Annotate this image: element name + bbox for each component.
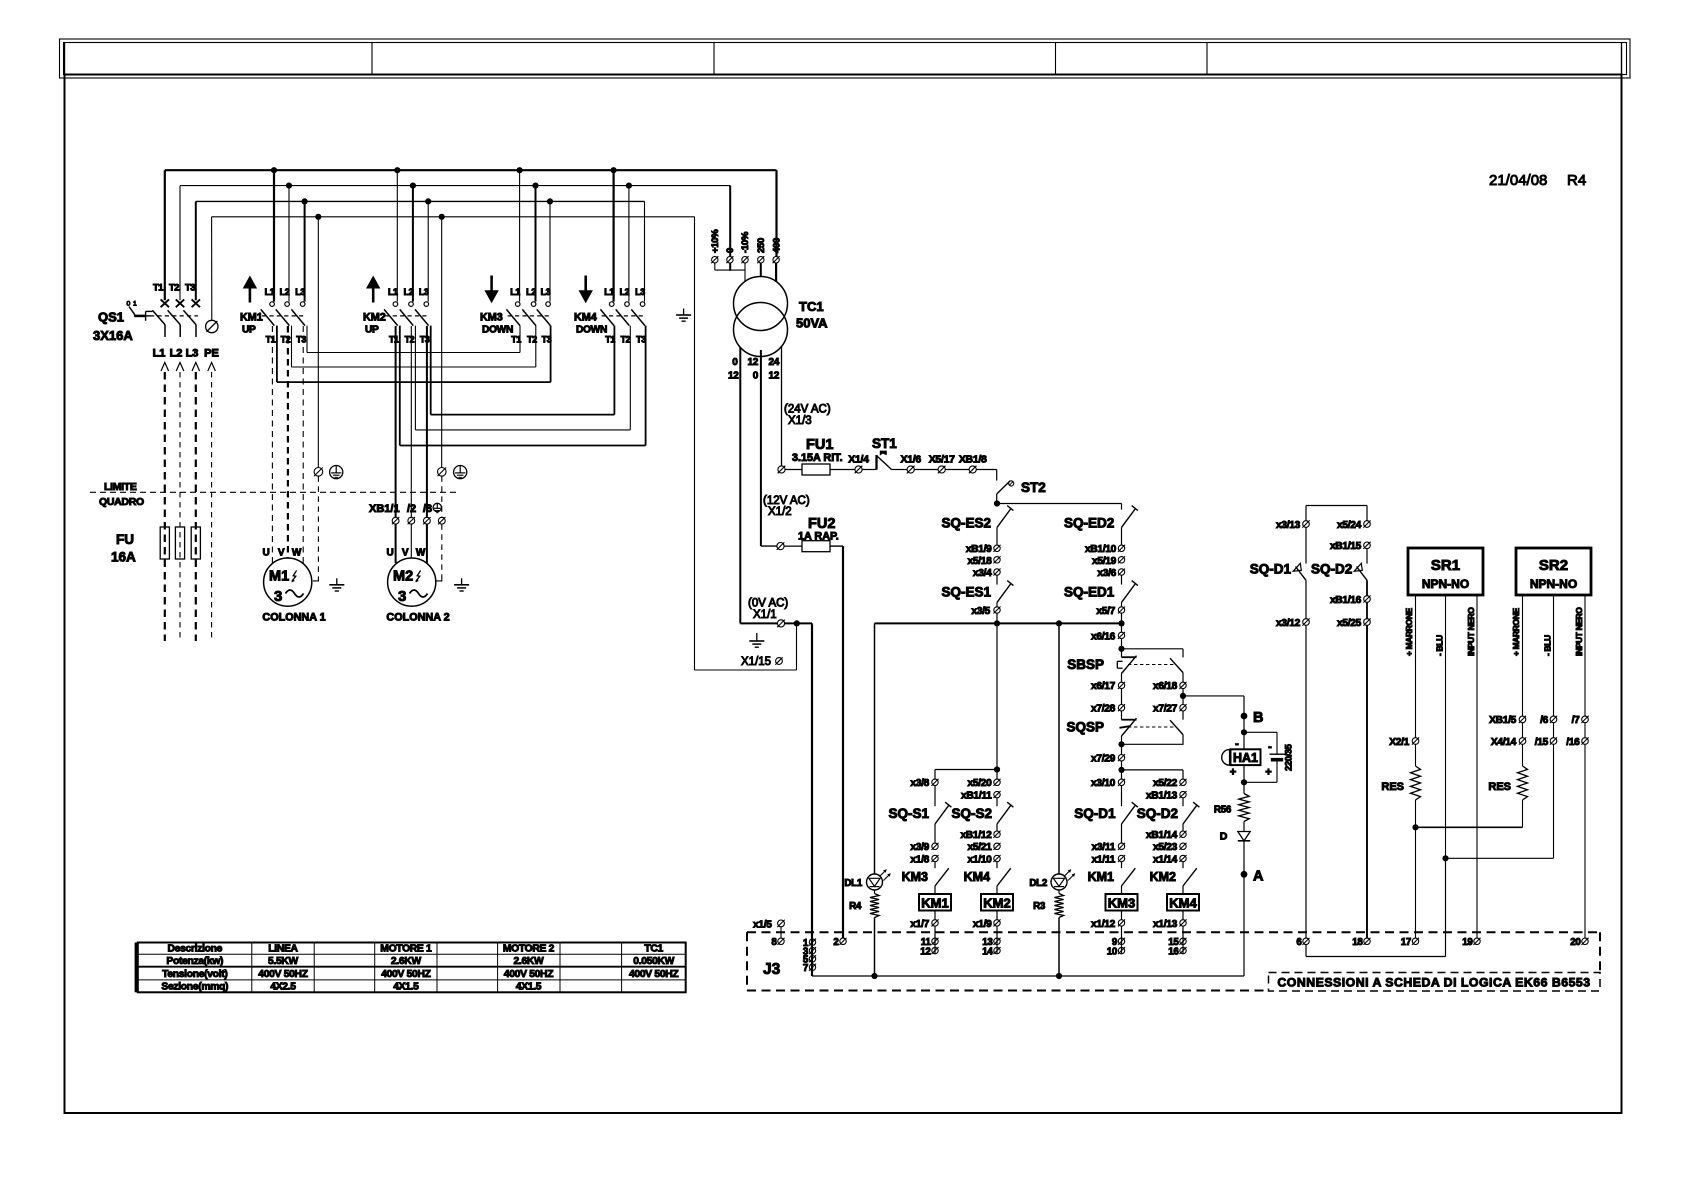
wire capacitor return (1276, 762, 1278, 783)
svg-text:X1/4: X1/4 (848, 454, 869, 466)
wire QS1 PE drop (211, 217, 213, 321)
svg-text:4X1.5: 4X1.5 (516, 982, 542, 993)
svg-text:x5/25: x5/25 (1337, 618, 1362, 629)
wire KM1 T1 to crossbar (276, 326, 278, 383)
wire motor M1 phase V dashed (287, 326, 289, 558)
svg-text:X1/1: X1/1 (753, 609, 777, 621)
svg-text:x7/27: x7/27 (1153, 704, 1178, 715)
svg-text:5.5KW: 5.5KW (268, 956, 299, 967)
wire branch to B node (1183, 695, 1244, 697)
svg-text:X1/6: X1/6 (900, 454, 921, 466)
wire PE column2 dashed (441, 476, 443, 517)
wire ST1 to X1/6 (892, 469, 908, 471)
wire bus L1 (165, 169, 777, 171)
feeder dashed line L1 (164, 372, 166, 641)
svg-text:16A: 16A (111, 550, 136, 565)
wire KM4 L1 drop (612, 170, 614, 301)
svg-text:16: 16 (1168, 947, 1179, 958)
wire x3/13 to SQ-D1 (1305, 527, 1307, 563)
svg-text:SQ-D1: SQ-D1 (1250, 562, 1292, 577)
svg-text:XB1/8: XB1/8 (959, 454, 987, 466)
QS1 pole 2 blade (168, 310, 181, 324)
svg-text:L2: L2 (404, 287, 414, 297)
svg-text:(0V AC): (0V AC) (748, 598, 788, 610)
svg-text:/6: /6 (1540, 715, 1549, 726)
wire coil KM3 to x1/12 (1121, 911, 1123, 920)
terminal PE column1 (314, 468, 323, 477)
wire to FU1 (785, 469, 802, 471)
svg-text:24: 24 (768, 357, 779, 368)
svg-text:x5/7: x5/7 (1096, 606, 1115, 617)
svg-text:T2: T2 (281, 335, 291, 345)
contactor KM3 pole 2 contact (531, 302, 536, 307)
svg-text:X1/15: X1/15 (741, 656, 771, 668)
wire crossbar KM1-T1 to KM3-T3 (277, 381, 551, 383)
wire motor M2 phase U (395, 326, 397, 517)
svg-text:x1/8: x1/8 (910, 854, 929, 865)
contactor KM2 mechanical link (385, 315, 429, 317)
svg-text:x6/17: x6/17 (1091, 681, 1116, 692)
wire PE to column 1 (317, 217, 319, 468)
QS1 pole 3 blade (183, 310, 196, 324)
wire crossbar KM1-T3 to KM3-T1 (307, 352, 520, 354)
wire DL1 chain to 0V rail (874, 918, 876, 977)
wire pin6 to BLU link (1305, 945, 1307, 957)
SQSP right pole (1182, 711, 1184, 720)
wire KM3 T1 down (519, 326, 521, 353)
svg-text:J3: J3 (763, 961, 781, 978)
svg-text:INPUT NERO: INPUT NERO (1574, 607, 1584, 656)
coil KM1 (919, 894, 951, 911)
svg-text:A: A (1253, 869, 1264, 885)
svg-text:400: 400 (771, 238, 782, 253)
svg-text:x5/19: x5/19 (1092, 556, 1117, 567)
svg-text:/15: /15 (1535, 737, 1549, 748)
svg-text:L2: L2 (280, 287, 290, 297)
svg-text:U: U (387, 548, 394, 559)
wire crossbar KM1-T2 to KM3-T2 (292, 366, 536, 368)
contactor KM3 mechanical link (508, 315, 551, 317)
wire x1/14 to KM2 contact (1182, 862, 1184, 869)
svg-text:KM2: KM2 (363, 312, 386, 324)
svg-text:2.6KW: 2.6KW (391, 956, 422, 967)
node B (1241, 713, 1248, 720)
svg-text:18: 18 (1352, 937, 1363, 948)
svg-text:MOTORE 1: MOTORE 1 (380, 944, 432, 955)
svg-text:Sezione(mmq): Sezione(mmq) (161, 982, 228, 993)
arrow up on feeder (192, 363, 200, 372)
wire x1/13 to J3 pins 15 16 (1182, 926, 1184, 954)
SBSP right pole (1170, 658, 1183, 672)
transformer TC1 primary winding (734, 277, 788, 331)
wire bus L3 (196, 200, 645, 202)
wire KM1 L1 drop (273, 170, 275, 301)
wire SQ-D2 chain top (1366, 506, 1368, 521)
svg-text:xB1/12: xB1/12 (960, 830, 992, 841)
svg-text:20: 20 (1570, 937, 1581, 948)
svg-text:SQ-ES2: SQ-ES2 (941, 516, 991, 531)
svg-text:L3: L3 (635, 287, 645, 297)
svg-text:xB1/15: xB1/15 (1330, 541, 1362, 552)
svg-text:KM3: KM3 (480, 312, 503, 324)
wire KM3 L3 drop (549, 201, 551, 301)
wire bus L2 to transformer tap 0 (729, 186, 731, 257)
svg-text:14: 14 (982, 947, 993, 958)
wire bus L2 (180, 185, 730, 187)
terminal XB1/3 (424, 517, 431, 524)
wire XB1/5 to X4/14 (1522, 723, 1524, 738)
QS1 pole 1 contact cross (161, 299, 169, 307)
ground motor M1 (336, 578, 338, 585)
connector J3 dashed box (747, 931, 1600, 933)
ground motor M2 (461, 578, 463, 585)
terminal tap 0 (727, 257, 733, 263)
svg-text:M2: M2 (393, 569, 413, 585)
capacitor branch (1244, 731, 1277, 733)
terminal XB1/1 (392, 517, 399, 524)
wire coil KM2 to x1/9 (996, 911, 998, 920)
wire tap 0 stub (729, 263, 731, 271)
svg-text:/3: /3 (423, 503, 432, 515)
wire SQ-D2 to xB1/16 (1366, 580, 1368, 595)
wire rail to x6/16 (1121, 623, 1123, 632)
svg-text:x3/9: x3/9 (910, 842, 929, 853)
svg-text:2.6KW: 2.6KW (514, 956, 545, 967)
wire PE to column 2 (441, 217, 443, 468)
wire x1/8 to KM3 contact (934, 862, 936, 869)
wire SQ-ES2 to terminals (996, 527, 998, 545)
svg-text:Potenza(kw): Potenza(kw) (166, 956, 223, 967)
contactor KM1 pole 1 contact (270, 302, 275, 307)
wire to node B (1243, 696, 1245, 732)
capacitor 220/35 (1270, 753, 1285, 755)
wire 0V bottom rail (812, 975, 1244, 977)
contactor KM1 mechanical link (262, 315, 306, 317)
wire x3/5 to rail (996, 613, 998, 623)
svg-text:L2: L2 (526, 287, 536, 297)
coil KM4 (1167, 894, 1199, 911)
svg-text:M1: M1 (269, 569, 289, 585)
sensor SR1 box (1408, 548, 1483, 595)
wire xB1/15 to SQ-D2 (1366, 549, 1368, 564)
contactor KM2 pole 2 contact (409, 302, 414, 307)
node branch to horn (1182, 689, 1184, 705)
svg-text:W: W (416, 548, 426, 559)
wire KM2 L2 drop (412, 186, 414, 302)
wire branch to SBSP right pole (1122, 648, 1184, 650)
wire blu tie line (1446, 857, 1554, 859)
wire QS1 pole T2 drop (179, 186, 181, 301)
contactor KM4 pole 2 contact (625, 302, 630, 307)
svg-text:x1/5: x1/5 (753, 919, 772, 930)
svg-text:SBSP: SBSP (1067, 657, 1104, 672)
wire X4/16 to pin 20 (1584, 723, 1586, 738)
svg-text:x3/10: x3/10 (1091, 778, 1116, 789)
svg-text:x1/14: x1/14 (1153, 854, 1178, 865)
svg-text:+: + (1265, 767, 1271, 779)
svg-text:+ MARRONE: + MARRONE (1404, 607, 1414, 656)
svg-text:DL2: DL2 (1029, 878, 1047, 889)
svg-text:L3: L3 (295, 287, 305, 297)
wire diode to node A (1243, 841, 1245, 875)
title strip cell dividers (371, 43, 373, 75)
svg-text:400V 50HZ: 400V 50HZ (629, 969, 678, 980)
coil KM2 (981, 894, 1013, 911)
wire top link SQ-D1 SQ-D2 chains (1306, 505, 1367, 507)
svg-text:x1/11: x1/11 (1092, 854, 1116, 865)
earth mini symbol XB1 (433, 503, 441, 511)
wire x3/10 to SQ-D1 (1121, 786, 1123, 807)
svg-text:D: D (1220, 831, 1228, 843)
sensor SR2 box (1516, 548, 1591, 595)
wire x1/5 to pin 8 (780, 927, 782, 938)
svg-text:x5/23: x5/23 (1153, 842, 1178, 853)
svg-text:SR2: SR2 (1539, 557, 1568, 574)
coil KM3 (1106, 894, 1138, 911)
wire KM1 T3 to crossbar (306, 326, 308, 353)
svg-text:ST2: ST2 (1021, 480, 1046, 495)
svg-text:W: W (292, 548, 302, 559)
svg-text:NPN-NO: NPN-NO (1422, 577, 1469, 591)
svg-text:xB1/14: xB1/14 (1146, 830, 1178, 841)
wire SQ-S2 to xB1/12 (996, 824, 998, 831)
svg-text:R3: R3 (1033, 901, 1046, 912)
wire PE column1 dashed (317, 476, 319, 576)
wire RES SR2 to tie (1522, 800, 1524, 827)
svg-text:DL1: DL1 (844, 878, 862, 889)
terminal FU2 input (777, 543, 784, 550)
svg-text:COLONNA 2: COLONNA 2 (386, 612, 449, 624)
wire KM4 L3 drop (644, 201, 646, 301)
svg-text:X2/1: X2/1 (1389, 737, 1409, 748)
wire QS1 pole T3 drop (195, 201, 197, 300)
svg-text:SQ-S2: SQ-S2 (951, 806, 992, 821)
wire crossbar KM2-T1 to KM4-T3 (400, 445, 646, 447)
contactor KM4 pole 3 contact (640, 302, 645, 307)
svg-text:4X1.5: 4X1.5 (393, 982, 419, 993)
svg-text:x5/18: x5/18 (968, 556, 993, 567)
svg-text:220/35: 220/35 (1284, 744, 1294, 771)
svg-text:x5/24: x5/24 (1337, 520, 1362, 531)
svg-text:KM2: KM2 (983, 896, 1010, 911)
terminal tap -10% (742, 257, 748, 263)
svg-text:QS1: QS1 (98, 310, 124, 325)
svg-text:8: 8 (771, 937, 777, 948)
earth symbol column1 top (330, 466, 343, 479)
terminal X1/3 fuse input (778, 466, 785, 473)
svg-text:CONNESSIONI A SCHEDA DI LO: CONNESSIONI A SCHEDA DI LOGICA EK66 B655… (1277, 976, 1590, 990)
node SQ-D branch (1121, 761, 1123, 779)
wire motor M1 phase U dashed (271, 326, 273, 563)
svg-text:XB1/5: XB1/5 (1489, 715, 1516, 726)
wire SR2 nero (1584, 595, 1586, 716)
svg-text:QUADRO: QUADRO (99, 496, 144, 508)
svg-text:UP: UP (242, 325, 256, 336)
wire tap -10% to winding (744, 263, 746, 282)
wire SR2 marrone (1522, 595, 1524, 716)
wire KM3 T2 down (535, 326, 537, 367)
svg-text:17: 17 (1401, 937, 1412, 948)
svg-text:B: B (1253, 710, 1263, 726)
svg-text:/7: /7 (1572, 715, 1581, 726)
svg-text:x3/4: x3/4 (973, 568, 992, 579)
wire X2/1 to RES (1415, 744, 1417, 766)
contactor KM2 arrow (366, 276, 380, 289)
wire x1/9 to J3 pins 13 14 (996, 926, 998, 954)
contactor KM1 pole 2 contact (285, 302, 290, 307)
terminal PE column2 (438, 468, 447, 477)
svg-text:12: 12 (920, 947, 931, 958)
svg-text:0: 0 (127, 301, 131, 308)
wire KM4 contact to coil KM2 (996, 886, 998, 894)
svg-text:FU: FU (116, 532, 134, 547)
contactor KM2 pole 1 contact (393, 302, 398, 307)
wire bus L1 to transformer tap 400 (775, 170, 777, 256)
svg-text:-: - (1235, 738, 1239, 750)
arrow up on feeder (176, 363, 184, 372)
contactor KM3 pole 1 contact (515, 302, 520, 307)
wire 0V to terminal X1/1 (740, 622, 777, 624)
arrow up on feeder (161, 363, 169, 372)
contactor KM1 pole 3 contact (300, 302, 305, 307)
svg-text:3: 3 (398, 588, 406, 605)
svg-text:KM3: KM3 (902, 870, 928, 884)
svg-text:L1: L1 (510, 287, 520, 297)
wire SR1 marrone (1415, 595, 1417, 738)
wire SQSP left to x7/29 (1121, 736, 1123, 755)
wire 0V down to J3 pins 1 3 5 7 (811, 623, 813, 976)
ground X1/15 (756, 633, 758, 641)
svg-text:+: + (1230, 767, 1236, 779)
svg-text:0: 0 (725, 248, 736, 253)
svg-text:/2: /2 (407, 503, 416, 515)
svg-text:x3/5: x3/5 (971, 606, 990, 617)
wire crossbar KM2-T2 to KM4-T2 (415, 429, 630, 431)
wire KM1 T2 to crossbar (291, 326, 293, 367)
border frame outer title strip (60, 39, 1631, 78)
motor M1 (264, 558, 312, 606)
svg-text:T1: T1 (153, 283, 163, 293)
svg-text:x3/11: x3/11 (1092, 842, 1116, 853)
wire to FU2 (784, 545, 802, 547)
wire x1/7 to J3 pins 11 12 (934, 926, 936, 954)
svg-text:250: 250 (756, 238, 767, 253)
svg-text:SQ-D1: SQ-D1 (1074, 806, 1116, 821)
wire X1/6 to X5/17 (914, 469, 938, 471)
svg-text:RES: RES (1488, 781, 1511, 793)
wire branch to SQ-D2 (1122, 769, 1184, 771)
fuse FU element (175, 527, 184, 559)
wire motor M2 phase V (410, 326, 412, 517)
wire X4/14 to RES (1522, 744, 1524, 766)
wire tap jumper +10% to -10% (714, 263, 716, 270)
svg-text:12: 12 (747, 357, 758, 368)
svg-text:- BLU: - BLU (1435, 635, 1445, 656)
QS1 pole 2 contact cross (176, 299, 184, 307)
svg-text:V: V (278, 548, 285, 559)
terminal tap 250 (758, 257, 764, 263)
SBSP left pole (1122, 656, 1137, 658)
svg-text:xB1/9: xB1/9 (966, 544, 992, 555)
svg-text:x3/12: x3/12 (1276, 618, 1301, 629)
svg-text:4X2.5: 4X2.5 (270, 982, 296, 993)
svg-text:MOTORE 2: MOTORE 2 (503, 944, 555, 955)
wire KM2 contact to coil KM4 (1182, 886, 1184, 894)
wire X1/4 to ST1 (862, 469, 876, 471)
wire x5/7 to rail (1121, 613, 1123, 623)
svg-text:0.050KW: 0.050KW (633, 956, 674, 967)
svg-text:- BLU: - BLU (1543, 635, 1553, 656)
terminal XB1 PE (438, 517, 445, 524)
wire rail down to DL1 (874, 623, 876, 874)
wire xB1/13 to SQ-D2 (1182, 798, 1184, 806)
svg-text:x1/12: x1/12 (1091, 919, 1116, 930)
svg-text:x7/28: x7/28 (1091, 704, 1116, 715)
svg-text:DOWN: DOWN (482, 325, 513, 336)
wire KM2 T3 to crossbar (430, 326, 432, 415)
wire SQ-D1 chain top (1305, 506, 1307, 521)
svg-text:SR1: SR1 (1431, 557, 1460, 574)
QS1 PE terminal circle (206, 320, 218, 332)
svg-text:SQ-D2: SQ-D2 (1311, 562, 1352, 577)
wire motor M1 phase W dashed (302, 326, 304, 563)
svg-text:L1: L1 (604, 287, 614, 297)
svg-text:6: 6 (1296, 937, 1302, 948)
QS1 pole 1 blade (152, 310, 165, 324)
svg-text:L2: L2 (170, 348, 183, 360)
svg-text:T3: T3 (296, 335, 306, 345)
svg-text:SQ-D2: SQ-D2 (1137, 806, 1178, 821)
svg-text:xB1/10: xB1/10 (1085, 544, 1117, 555)
svg-text:KM1: KM1 (1088, 870, 1114, 884)
wire SQ-S2 drop (996, 770, 998, 780)
wire SQ-D1 to x3/12 (1305, 580, 1307, 618)
svg-text:x6/16: x6/16 (1091, 631, 1116, 642)
svg-text:x5/20: x5/20 (968, 778, 993, 789)
wire rail to SQ-S branch (996, 623, 998, 769)
svg-text:10: 10 (1107, 947, 1118, 958)
svg-text:XB1/1: XB1/1 (369, 503, 400, 515)
svg-text:RES: RES (1381, 781, 1404, 793)
contactor KM4 arrow (579, 290, 593, 303)
wire x1/12 to J3 pins 9 10 (1121, 926, 1123, 954)
svg-text:(24V AC): (24V AC) (784, 404, 831, 416)
svg-text:x1/7: x1/7 (910, 919, 929, 930)
svg-text:LIMITE: LIMITE (104, 481, 137, 493)
wire KM1 L2 drop (288, 186, 290, 302)
wire FU1 to X1/4 (830, 469, 855, 471)
wire motor M2 phase W (426, 326, 428, 517)
QS1 mechanical link (150, 315, 198, 317)
wire secondary 24 down to FU1 (781, 347, 783, 466)
wire KM2 T2 to crossbar (414, 326, 416, 430)
svg-text:0: 0 (753, 371, 759, 382)
contactor KM3 arrow (484, 290, 498, 303)
wire crossbar KM2-T3 to KM4-T1 (431, 414, 615, 416)
contactor KM2 pole 3 contact (424, 302, 429, 307)
wire SR2 blu (1553, 595, 1555, 716)
wire switched rail (875, 622, 1122, 624)
svg-text:Tensione(volt): Tensione(volt) (162, 969, 227, 980)
svg-text:x3/13: x3/13 (1276, 520, 1301, 531)
wire x3/4 to SQ-ES1 (996, 575, 998, 584)
svg-text:+ MARRONE: + MARRONE (1511, 607, 1521, 656)
svg-text:xB1/16: xB1/16 (1330, 595, 1362, 606)
svg-text:x3/8: x3/8 (910, 778, 929, 789)
svg-text:KM3: KM3 (1108, 896, 1135, 911)
svg-text:DOWN: DOWN (576, 325, 607, 336)
wire SQ-D2 to xB1/14 (1182, 824, 1184, 831)
